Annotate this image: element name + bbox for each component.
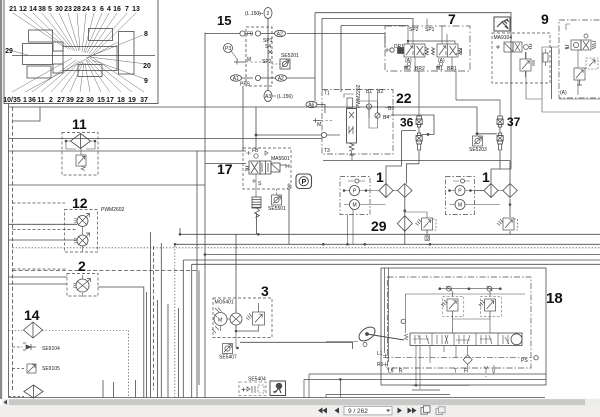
svg-text:1: 1 bbox=[23, 97, 27, 104]
svg-text:18: 18 bbox=[117, 97, 125, 104]
block arrows bbox=[413, 335, 509, 344]
wire to sec22 bbox=[9, 138, 323, 140]
svg-text:11: 11 bbox=[37, 97, 45, 104]
svg-text:22: 22 bbox=[396, 90, 412, 106]
wire rail y254 bbox=[205, 254, 600, 256]
svg-text:SE5501: SE5501 bbox=[268, 206, 286, 212]
steering wheel bbox=[356, 324, 404, 346]
section 17 park brake valve bbox=[217, 134, 312, 218]
svg-text:A2: A2 bbox=[277, 32, 283, 38]
valve B body bbox=[407, 40, 461, 57]
wire bundle vertical x174 dotted bbox=[174, 246, 176, 398]
svg-text:SE5201: SE5201 bbox=[281, 53, 299, 59]
svg-text:14: 14 bbox=[24, 307, 40, 323]
svg-text:8: 8 bbox=[144, 31, 148, 38]
pump P bbox=[350, 186, 360, 196]
svg-text:9 / 262: 9 / 262 bbox=[348, 408, 368, 415]
wire sec9 down bbox=[551, 47, 553, 99]
svg-text:5: 5 bbox=[48, 6, 52, 13]
svg-text:2: 2 bbox=[78, 258, 86, 274]
wire sec7 down runs bbox=[491, 151, 511, 184]
svg-text:19: 19 bbox=[128, 97, 136, 104]
drain mark bbox=[425, 236, 430, 241]
section 18 steering unit bbox=[304, 268, 563, 398]
wire bundle vertical x191 bbox=[191, 264, 193, 397]
wire sec15 pps down bbox=[242, 86, 244, 151]
svg-text:3: 3 bbox=[261, 283, 269, 299]
spring bbox=[349, 143, 354, 155]
relief valve right bbox=[497, 218, 518, 230]
wire sec2 out bbox=[9, 283, 68, 285]
wire bundle vertical x161 bbox=[160, 243, 162, 398]
wire bundle vertical x178 bbox=[178, 308, 180, 398]
wire bundle vertical x168 bbox=[167, 304, 169, 398]
pilot wires bbox=[408, 18, 452, 71]
svg-text:9: 9 bbox=[541, 11, 549, 27]
check valve b bbox=[487, 286, 492, 291]
svg-text:24: 24 bbox=[82, 6, 90, 13]
section 9 brake charge group bbox=[492, 11, 600, 112]
svg-text:B3: B3 bbox=[388, 106, 394, 112]
section 22 PWM2202 valve bbox=[306, 84, 412, 160]
svg-text:13: 13 bbox=[132, 6, 140, 13]
sensor SE5407 bbox=[223, 344, 233, 354]
wire dashed to sec12 bbox=[13, 202, 66, 204]
wire to sec2 bbox=[9, 276, 68, 278]
wire stub bbox=[13, 107, 41, 121]
scrollbar thumb bbox=[9, 399, 585, 405]
wire bundle vertical x135 bbox=[135, 380, 137, 398]
svg-text:SE9105: SE9105 bbox=[42, 366, 60, 372]
svg-text:29: 29 bbox=[5, 48, 13, 55]
wire left bus vertical bbox=[8, 104, 10, 398]
orifice bbox=[375, 113, 380, 118]
svg-text:PWM2602: PWM2602 bbox=[101, 207, 125, 213]
valve cross bbox=[268, 50, 272, 54]
svg-text:SP1: SP1 bbox=[425, 27, 435, 33]
svg-text:20: 20 bbox=[143, 63, 151, 70]
sensor SE9105 bbox=[13, 364, 61, 373]
svg-text:SP2: SP2 bbox=[409, 27, 419, 33]
tank port bbox=[484, 365, 496, 370]
wire rail y244 bbox=[175, 243, 600, 245]
svg-text:12: 12 bbox=[19, 6, 27, 13]
wire under diamond l bbox=[404, 198, 406, 216]
svg-text:2: 2 bbox=[49, 97, 53, 104]
filter diamond 1 bbox=[484, 184, 498, 198]
wire b4 feed bbox=[391, 115, 434, 134]
strainer diamond 2 bbox=[24, 385, 43, 398]
svg-text:15: 15 bbox=[217, 13, 231, 28]
relief valve a dashed box bbox=[441, 291, 464, 319]
wire diamonds l1 bbox=[386, 131, 419, 184]
wire mid vertical B bbox=[196, 151, 198, 398]
svg-text:P: P bbox=[302, 179, 307, 186]
port A2 bottom bbox=[276, 75, 287, 81]
svg-text:6: 6 bbox=[100, 6, 104, 13]
wire bundle vertical x103 bbox=[102, 380, 104, 398]
nav page view icons bbox=[421, 406, 445, 415]
vent circle bbox=[401, 319, 405, 323]
ports under block bbox=[383, 357, 533, 359]
wire to sec12 c bbox=[9, 239, 78, 241]
wire to mid vertical bbox=[9, 184, 206, 186]
sensor SE5203 bbox=[473, 136, 483, 146]
svg-text:17: 17 bbox=[106, 97, 114, 104]
svg-text:S: S bbox=[258, 181, 262, 187]
bypass relief bbox=[76, 155, 86, 166]
machine outline bbox=[12, 29, 155, 79]
svg-text:3: 3 bbox=[92, 6, 96, 13]
wire bundle vertical x183 bbox=[182, 260, 184, 398]
svg-text:MA9104: MA9104 bbox=[494, 35, 513, 41]
section 36 coupling bbox=[400, 116, 429, 151]
svg-text:PWM2202: PWM2202 bbox=[356, 84, 362, 108]
section 37 coupling bbox=[469, 115, 521, 153]
port circle bbox=[321, 132, 326, 137]
svg-text:A6: A6 bbox=[308, 103, 314, 109]
svg-text:7: 7 bbox=[448, 11, 456, 27]
svg-text:M: M bbox=[317, 122, 321, 128]
electric motor M bbox=[214, 313, 227, 326]
svg-text:11: 11 bbox=[72, 116, 87, 132]
svg-text:SP2: SP2 bbox=[262, 59, 272, 65]
svg-text:22: 22 bbox=[76, 97, 84, 104]
wire top right run3 bbox=[341, 25, 408, 27]
svg-text:S4: S4 bbox=[265, 44, 271, 50]
section 14 suction strainer bbox=[9, 307, 129, 398]
scrollbar left button bbox=[3, 400, 7, 405]
enclosure dash-dot bbox=[385, 26, 470, 71]
svg-text:(L.150): (L.150) bbox=[245, 11, 261, 17]
svg-text:1: 1 bbox=[376, 169, 384, 185]
wheel column wires bbox=[326, 341, 358, 343]
svg-text:16: 16 bbox=[113, 6, 121, 13]
outer box bbox=[381, 268, 546, 385]
svg-text:7: 7 bbox=[125, 6, 129, 13]
svg-text:9: 9 bbox=[144, 78, 148, 85]
svg-text:29: 29 bbox=[371, 218, 387, 234]
wire sec15 spine bbox=[267, 19, 269, 92]
port A2 top bbox=[255, 31, 260, 36]
svg-text:18: 18 bbox=[546, 290, 563, 307]
nav last page button bbox=[408, 408, 417, 414]
port A3 bbox=[264, 91, 272, 102]
svg-text:FB: FB bbox=[252, 148, 259, 154]
bottom left nested wires bbox=[304, 374, 546, 398]
pump bbox=[230, 313, 242, 325]
wire top right run1 bbox=[315, 13, 511, 169]
inner rect bbox=[405, 294, 525, 333]
svg-text:MO5401: MO5401 bbox=[215, 300, 234, 306]
sensor SE9104 bbox=[13, 343, 61, 352]
wire sensor se5407 out bbox=[240, 342, 352, 349]
section 1 right pump unit bbox=[446, 169, 518, 230]
callout numbers top row bbox=[3, 6, 151, 104]
svg-text:B2: B2 bbox=[377, 89, 383, 95]
valve body bbox=[347, 109, 357, 144]
top ports bbox=[246, 151, 268, 155]
bottom ports bbox=[404, 58, 457, 72]
filter diamond bbox=[71, 134, 91, 149]
wire sec29 bottom bbox=[405, 230, 510, 244]
right valve bbox=[565, 34, 596, 50]
pilot circle P3 bbox=[224, 44, 233, 53]
section 2 fan pump bbox=[67, 258, 98, 297]
svg-text:SE5407: SE5407 bbox=[219, 355, 237, 361]
motor M bbox=[350, 200, 360, 210]
section 1 left pump unit bbox=[340, 169, 412, 215]
wire rail y234 bbox=[180, 189, 600, 312]
orifice box bbox=[586, 58, 598, 69]
left unit dashed box MA9104 bbox=[492, 33, 550, 83]
wire dotted vertical x128 bbox=[128, 331, 130, 398]
filter diamond 2 bbox=[503, 184, 517, 198]
valve dashed box bbox=[246, 27, 272, 86]
port oval 2 bbox=[264, 8, 272, 19]
svg-text:A3: A3 bbox=[265, 94, 271, 100]
filter diamond bbox=[397, 216, 412, 232]
gyrator circle bbox=[511, 334, 522, 345]
filter diamond 1 bbox=[379, 184, 393, 198]
svg-text:(A): (A) bbox=[438, 58, 445, 64]
strainer diamond bbox=[24, 322, 43, 338]
svg-text:V: V bbox=[492, 370, 496, 376]
section 11 return filter bbox=[62, 116, 98, 175]
section 7 dual solenoid valve bbox=[385, 11, 500, 116]
wire bottom rail B bbox=[9, 397, 546, 399]
section 29 filter and relief bbox=[174, 210, 436, 256]
inner dash-dot box bbox=[388, 277, 532, 368]
svg-text:1: 1 bbox=[482, 169, 490, 185]
prop valve B bbox=[77, 235, 88, 246]
svg-text:12: 12 bbox=[72, 195, 88, 211]
svg-text:(A): (A) bbox=[405, 58, 412, 64]
wire to sec12 a bbox=[9, 223, 78, 225]
wire top right run2 bbox=[322, 18, 413, 30]
wire mid vertical A bbox=[204, 33, 206, 398]
check valve bbox=[366, 104, 371, 109]
pump circle bbox=[76, 279, 89, 292]
relief valve b dashed box bbox=[479, 291, 502, 319]
svg-text:R1: R1 bbox=[377, 362, 384, 368]
port M bbox=[234, 60, 246, 65]
wire long dotted rail bbox=[13, 247, 600, 249]
wire dashed rail y270 bbox=[13, 270, 200, 272]
window left edge bbox=[0, 0, 2, 399]
callout legend box bbox=[4, 0, 158, 104]
svg-text:27: 27 bbox=[57, 97, 65, 104]
svg-text:PPS: PPS bbox=[240, 82, 251, 88]
port M arrow bbox=[313, 118, 321, 123]
wire dashed to sec2 bbox=[13, 268, 68, 270]
port mid circle bbox=[255, 75, 260, 80]
nav next button bbox=[398, 408, 403, 414]
right reducing valve bbox=[574, 68, 585, 85]
svg-text:SE5404: SE5404 bbox=[248, 377, 266, 383]
check valve a bbox=[447, 286, 452, 291]
svg-text:L9: L9 bbox=[388, 369, 394, 375]
svg-text:M: M bbox=[458, 203, 462, 209]
svg-text:A2: A2 bbox=[278, 76, 284, 82]
svg-text:SE9104: SE9104 bbox=[42, 346, 60, 352]
wire bundle vertical x157 bbox=[157, 300, 159, 398]
section 12 PWM2602 pilot supply bbox=[65, 195, 125, 252]
port DR1 bbox=[390, 48, 394, 52]
bottom ports bbox=[252, 174, 256, 197]
prop valve A bbox=[77, 216, 88, 227]
svg-text:36: 36 bbox=[400, 116, 414, 130]
wire sec17 down bbox=[256, 107, 322, 148]
nav page field bbox=[344, 406, 392, 415]
diamond on T bbox=[463, 355, 472, 364]
wire bundle vertical x146 bbox=[146, 292, 148, 398]
check valve bbox=[355, 179, 359, 183]
svg-text:36: 36 bbox=[28, 97, 36, 104]
steering valve block bbox=[410, 333, 522, 346]
svg-text:2: 2 bbox=[267, 11, 270, 17]
svg-text:T: T bbox=[454, 369, 457, 375]
tank rects bbox=[347, 98, 353, 108]
SE5404 group bbox=[239, 377, 286, 396]
svg-text:30: 30 bbox=[55, 6, 63, 13]
wire top feed bbox=[9, 107, 498, 134]
svg-text:23: 23 bbox=[64, 6, 72, 13]
svg-text:10/35: 10/35 bbox=[3, 97, 21, 104]
wire rail y260 bbox=[183, 259, 600, 261]
sensor SE5501 bbox=[272, 195, 282, 205]
relief valve bbox=[237, 303, 265, 331]
svg-text:SE5203: SE5203 bbox=[469, 147, 487, 153]
wire t3 return bbox=[352, 160, 510, 162]
svg-text:(A): (A) bbox=[560, 90, 567, 96]
svg-text:17: 17 bbox=[217, 161, 233, 177]
svg-text:37: 37 bbox=[140, 97, 148, 104]
svg-text:P3: P3 bbox=[225, 46, 231, 52]
bottom toolbar bbox=[0, 405, 600, 417]
enclosure dash-dot bbox=[322, 90, 393, 155]
svg-text:T3: T3 bbox=[324, 148, 330, 154]
accumulator bbox=[252, 197, 261, 208]
wire bundle vertical x150 bbox=[149, 232, 151, 398]
port A1 bbox=[231, 75, 242, 81]
svg-text:MA5501: MA5501 bbox=[271, 156, 290, 162]
horizontal scrollbar track bbox=[2, 399, 600, 406]
wire bundle vertical x153 dashed bbox=[153, 246, 155, 390]
reducing valve bbox=[520, 52, 535, 77]
svg-text:14: 14 bbox=[29, 6, 37, 13]
svg-text:FB: FB bbox=[247, 32, 254, 38]
nav prev button bbox=[335, 408, 340, 414]
svg-text:9: 9 bbox=[426, 236, 429, 242]
svg-text:F: F bbox=[464, 369, 467, 375]
nav first page button bbox=[318, 408, 327, 414]
svg-text:T1: T1 bbox=[324, 91, 330, 97]
svg-text:M: M bbox=[218, 318, 222, 324]
svg-text:P: P bbox=[353, 189, 357, 195]
port FB bbox=[240, 31, 245, 36]
section 3 emergency steer pump bbox=[212, 283, 272, 361]
svg-text:P: P bbox=[458, 189, 462, 195]
block drop wires bbox=[416, 319, 490, 389]
relief valve bbox=[405, 212, 436, 230]
svg-text:39: 39 bbox=[66, 97, 74, 104]
svg-text:PS: PS bbox=[521, 358, 528, 364]
drop wires to couplings bbox=[415, 71, 500, 116]
svg-text:A1: A1 bbox=[233, 76, 239, 82]
wire left bus dashed vertical bbox=[12, 107, 14, 390]
section 15 priority valve group bbox=[205, 8, 299, 102]
wire bundle vertical x113 bbox=[113, 382, 115, 398]
svg-text:M2: M2 bbox=[404, 66, 411, 72]
filter diamond 2 bbox=[398, 184, 412, 198]
svg-text:37: 37 bbox=[507, 115, 521, 129]
dashed box bbox=[243, 148, 291, 189]
wire a2 run bbox=[287, 13, 386, 101]
sensor SE5201 bbox=[280, 59, 290, 69]
svg-text:M: M bbox=[353, 203, 357, 209]
column icon bbox=[270, 381, 286, 396]
unit wires bbox=[526, 47, 600, 112]
brake P icon bbox=[296, 174, 312, 189]
svg-text:L1: L1 bbox=[377, 351, 383, 357]
small accumulator bbox=[543, 53, 548, 62]
svg-text:15: 15 bbox=[97, 97, 105, 104]
svg-text:(L.156): (L.156) bbox=[277, 94, 293, 100]
port oval A6 bbox=[306, 101, 317, 107]
wire to sec17 bbox=[9, 150, 247, 152]
hand brake icon bbox=[494, 17, 510, 31]
wire under diamond r bbox=[509, 198, 511, 217]
svg-text:21: 21 bbox=[9, 6, 17, 13]
right unit dash-dot box bbox=[559, 20, 600, 98]
valve A body bbox=[398, 44, 435, 57]
solenoid valve ma9104 bbox=[496, 42, 532, 52]
svg-text:28: 28 bbox=[73, 6, 81, 13]
svg-text:30: 30 bbox=[86, 97, 94, 104]
check valve line bbox=[440, 288, 501, 290]
svg-text:38: 38 bbox=[38, 6, 46, 13]
callout leader lines bbox=[12, 13, 146, 92]
wire sec17 left link bbox=[205, 163, 246, 165]
wire sec2 corner down bbox=[98, 287, 144, 398]
wire bundle vertical x199 bbox=[198, 271, 200, 385]
svg-text:4: 4 bbox=[107, 6, 111, 13]
wire rail y264 bbox=[192, 263, 600, 265]
svg-text:M1: M1 bbox=[436, 66, 443, 72]
wire dashed to sec12 b bbox=[13, 229, 78, 231]
